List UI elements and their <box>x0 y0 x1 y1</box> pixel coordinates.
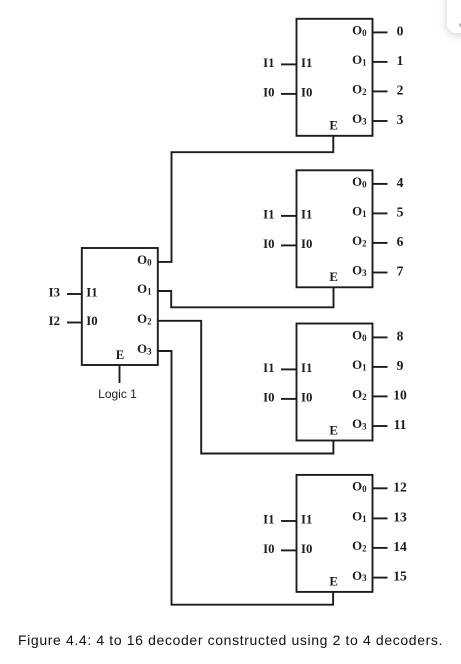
svg-text:9: 9 <box>397 358 404 373</box>
wire output 9 stub of U4 <box>373 366 388 368</box>
svg-text:O3: O3 <box>352 417 367 431</box>
wire output 5 stub of U3 <box>373 212 388 214</box>
svg-text:O1: O1 <box>352 510 366 524</box>
wire output 2 stub of U2 <box>373 90 388 92</box>
svg-text:I1: I1 <box>263 361 274 375</box>
svg-text:I0: I0 <box>301 85 312 99</box>
svg-text:O2: O2 <box>352 388 367 402</box>
svg-text:E: E <box>329 575 338 589</box>
svg-text:O2: O2 <box>352 234 367 248</box>
svg-text:I0: I0 <box>263 85 274 99</box>
wire input I1 to U4 <box>281 368 297 370</box>
wire input I1 to U3 <box>281 215 297 217</box>
svg-text:4: 4 <box>397 175 404 190</box>
svg-text:10: 10 <box>393 387 407 402</box>
wire E of U1 to Logic 1 <box>119 365 121 383</box>
svg-text:E: E <box>329 270 338 284</box>
wire output 1 stub of U2 <box>373 61 388 63</box>
wire output 14 stub of U5 <box>373 547 388 549</box>
wire net O0 of U1 to E of U2 <box>158 136 333 262</box>
wire input I0 to U5 <box>281 549 297 551</box>
wire output 3 stub of U2 <box>373 120 388 122</box>
wire output 12 stub of U5 <box>373 487 388 489</box>
wire net O1 of U1 to E of U3 <box>158 287 334 307</box>
svg-text:I0: I0 <box>86 314 97 328</box>
wire input I1 to U2 <box>281 63 297 65</box>
svg-text:O3: O3 <box>137 342 152 356</box>
decoder U5 (bottom 2-to-4 decoder box, outputs 12-15) <box>297 475 373 592</box>
wire input I1 to U5 <box>281 520 297 522</box>
wire output 6 stub of U3 <box>373 242 388 244</box>
svg-text:I1: I1 <box>301 56 312 70</box>
wire net O2 of U1 to E of U4 <box>158 321 334 454</box>
wire input I2 to U1 pin I0 <box>67 322 82 324</box>
caption: figure title <box>18 632 443 648</box>
svg-text:I0: I0 <box>263 542 274 556</box>
svg-text:I1: I1 <box>301 207 312 221</box>
svg-text:2: 2 <box>397 82 404 97</box>
svg-text:0: 0 <box>397 23 404 38</box>
svg-text:3: 3 <box>397 112 404 127</box>
wire output 11 stub of U4 <box>373 425 388 427</box>
svg-text:I0: I0 <box>263 390 274 404</box>
wire output 13 stub of U5 <box>373 517 388 519</box>
svg-text:15: 15 <box>393 569 407 584</box>
svg-text:I3: I3 <box>49 285 60 299</box>
wire net O3 of U1 to E of U5 <box>158 351 333 605</box>
svg-text:12: 12 <box>393 479 407 494</box>
svg-text:O0: O0 <box>352 480 367 494</box>
wire output 15 stub of U5 <box>373 577 388 579</box>
wire input I0 to U3 <box>281 244 297 246</box>
svg-text:O0: O0 <box>137 253 152 267</box>
svg-text:I1: I1 <box>301 361 312 375</box>
wire output 4 stub of U3 <box>373 183 388 185</box>
wire input I0 to U4 <box>281 398 297 400</box>
wire output 0 stub of U2 <box>373 31 388 33</box>
svg-text:I0: I0 <box>301 542 312 556</box>
overlay card icon dot <box>459 23 461 27</box>
wire input I0 to U2 <box>281 93 297 95</box>
wire output 8 stub of U4 <box>373 336 388 338</box>
svg-text:I0: I0 <box>301 390 312 404</box>
svg-text:11: 11 <box>394 417 407 432</box>
svg-text:I0: I0 <box>301 237 312 251</box>
svg-text:I1: I1 <box>86 285 97 299</box>
svg-text:E: E <box>329 119 338 133</box>
svg-text:13: 13 <box>393 509 407 524</box>
svg-text:I1: I1 <box>301 512 312 526</box>
svg-text:E: E <box>116 348 125 362</box>
svg-text:O3: O3 <box>352 264 367 278</box>
svg-text:O0: O0 <box>352 24 367 38</box>
svg-text:O3: O3 <box>352 112 367 126</box>
svg-text:O2: O2 <box>352 539 367 553</box>
wire input I3 to U1 pin I1 <box>67 293 82 295</box>
svg-text:7: 7 <box>397 264 404 279</box>
svg-text:O1: O1 <box>352 53 366 67</box>
overlay card top-right <box>447 0 461 33</box>
svg-text:I1: I1 <box>263 512 274 526</box>
svg-text:Logic 1: Logic 1 <box>98 387 137 401</box>
svg-text:1: 1 <box>397 53 404 68</box>
svg-text:I0: I0 <box>263 237 274 251</box>
svg-text:E: E <box>329 423 338 437</box>
wire output 7 stub of U3 <box>373 272 388 274</box>
svg-text:O2: O2 <box>352 83 367 97</box>
svg-text:O0: O0 <box>352 175 367 189</box>
svg-text:O3: O3 <box>352 569 367 583</box>
svg-text:6: 6 <box>397 234 404 249</box>
svg-text:I1: I1 <box>263 56 274 70</box>
svg-text:O1: O1 <box>137 282 151 296</box>
svg-text:O2: O2 <box>137 312 152 326</box>
svg-text:O0: O0 <box>352 329 367 343</box>
svg-text:O1: O1 <box>352 205 366 219</box>
svg-text:8: 8 <box>397 328 404 343</box>
wire output 10 stub of U4 <box>373 395 388 397</box>
svg-text:5: 5 <box>397 204 404 219</box>
svg-text:I1: I1 <box>263 207 274 221</box>
decoder U1 (main 2-to-4 decoder box) <box>82 248 158 365</box>
svg-text:I2: I2 <box>49 314 60 328</box>
decoder U3 (second 2-to-4 decoder box, outputs 4-7) <box>297 170 373 287</box>
svg-text:14: 14 <box>393 539 407 554</box>
decoder U2 (top 2-to-4 decoder box, outputs 0-3) <box>297 19 373 136</box>
decoder U4 (third 2-to-4 decoder box, outputs 8-11) <box>297 324 373 441</box>
svg-text:O1: O1 <box>352 358 366 372</box>
